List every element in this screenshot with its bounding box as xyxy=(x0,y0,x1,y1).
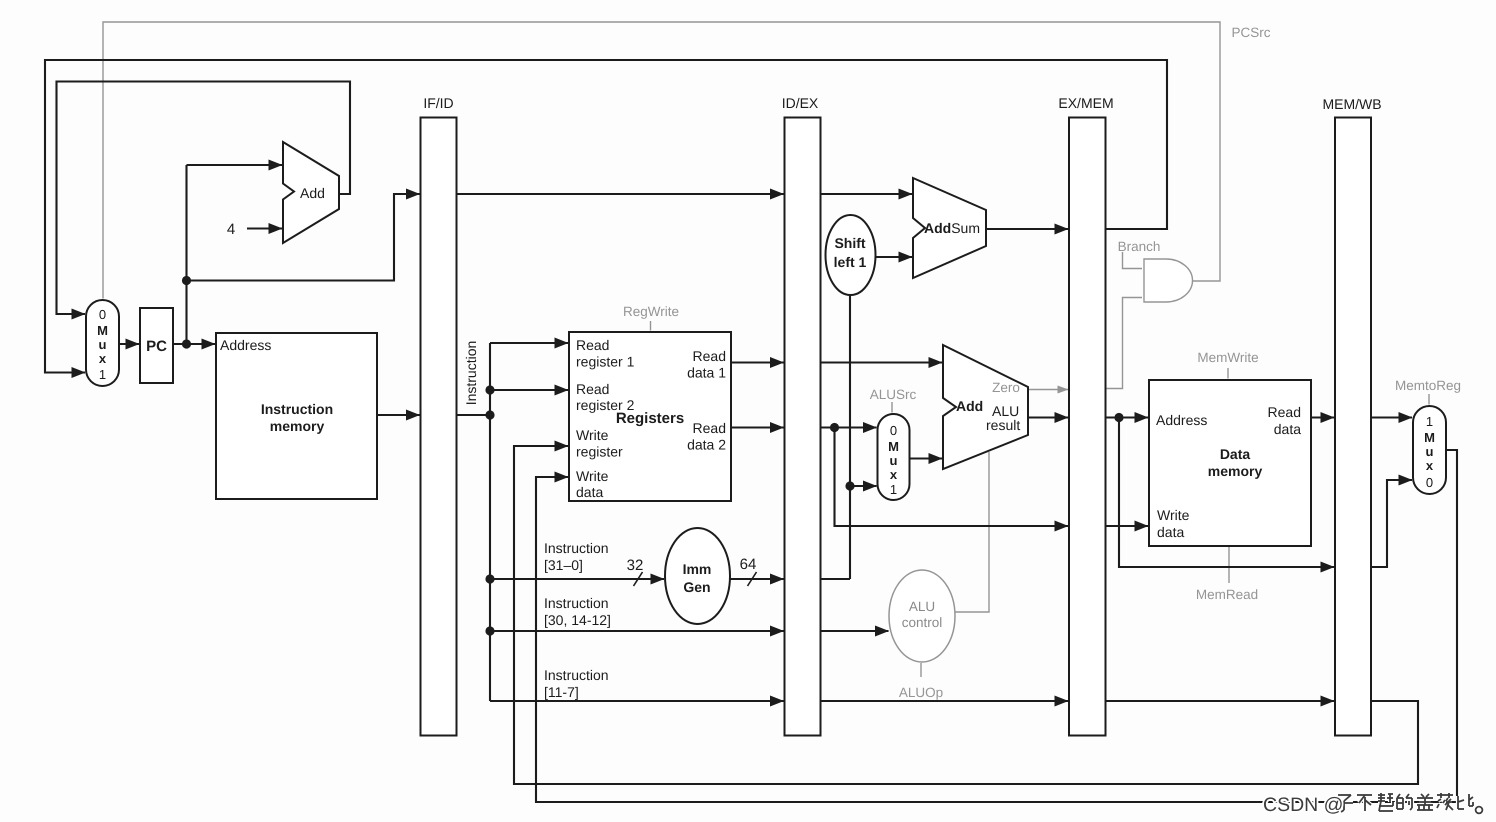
svg-text:Read: Read xyxy=(693,420,726,436)
svg-text:Imm: Imm xyxy=(683,561,712,577)
svg-text:MemWrite: MemWrite xyxy=(1197,350,1258,365)
svg-text:PC: PC xyxy=(146,338,167,355)
svg-text:u: u xyxy=(99,337,107,352)
svg-text:x: x xyxy=(99,351,107,366)
svg-text:Read: Read xyxy=(693,348,726,364)
svg-text:left 1: left 1 xyxy=(834,254,867,270)
svg-text:ALUSrc: ALUSrc xyxy=(870,387,917,402)
svg-text:MEM/WB: MEM/WB xyxy=(1322,96,1381,112)
svg-text:Read: Read xyxy=(576,337,609,353)
svg-text:u: u xyxy=(890,453,898,468)
svg-text:Add: Add xyxy=(956,398,983,414)
svg-text:data: data xyxy=(1157,524,1184,540)
svg-text:Read: Read xyxy=(1268,404,1301,420)
svg-text:M: M xyxy=(1424,430,1435,445)
svg-text:Data: Data xyxy=(1220,446,1251,462)
svg-text:result: result xyxy=(986,417,1020,433)
svg-text:Write: Write xyxy=(576,468,609,484)
svg-text:memory: memory xyxy=(1208,463,1263,479)
svg-text:ALU: ALU xyxy=(909,599,935,614)
svg-text:Branch: Branch xyxy=(1118,239,1161,254)
svg-text:32: 32 xyxy=(627,557,644,574)
svg-text:Address: Address xyxy=(220,337,271,353)
svg-text:Write: Write xyxy=(1157,507,1190,523)
svg-text:[11-7]: [11-7] xyxy=(544,684,579,700)
svg-text:data 1: data 1 xyxy=(687,365,726,381)
svg-text:Address: Address xyxy=(1156,412,1207,428)
svg-text:M: M xyxy=(888,439,899,454)
svg-text:data: data xyxy=(1274,421,1301,437)
svg-text:Instruction: Instruction xyxy=(463,341,479,406)
svg-text:Add: Add xyxy=(300,185,325,201)
svg-text:0: 0 xyxy=(1426,475,1433,490)
svg-text:Write: Write xyxy=(576,427,609,443)
svg-text:EX/MEM: EX/MEM xyxy=(1058,95,1113,111)
svg-text:4: 4 xyxy=(227,221,235,238)
svg-text:0: 0 xyxy=(99,307,106,322)
svg-text:Registers: Registers xyxy=(616,410,684,427)
svg-text:1: 1 xyxy=(890,482,897,497)
svg-text:data 2: data 2 xyxy=(687,437,726,453)
svg-text:M: M xyxy=(97,323,108,338)
svg-text:x: x xyxy=(1426,458,1434,473)
svg-text:register: register xyxy=(576,444,623,460)
svg-text:Instruction: Instruction xyxy=(261,401,333,417)
svg-text:data: data xyxy=(576,484,603,500)
svg-text:[30, 14-12]: [30, 14-12] xyxy=(544,612,611,628)
svg-text:RegWrite: RegWrite xyxy=(623,304,679,319)
svg-text:64: 64 xyxy=(740,556,757,573)
svg-text:control: control xyxy=(902,615,943,630)
svg-text:PCSrc: PCSrc xyxy=(1231,25,1270,40)
svg-text:0: 0 xyxy=(890,423,897,438)
svg-text:Instruction: Instruction xyxy=(544,540,609,556)
svg-text:AddSum: AddSum xyxy=(924,220,980,236)
svg-text:MemRead: MemRead xyxy=(1196,587,1258,602)
svg-text:memory: memory xyxy=(270,418,325,434)
svg-text:register 1: register 1 xyxy=(576,354,635,370)
svg-text:IF/ID: IF/ID xyxy=(423,95,453,111)
svg-text:Shift: Shift xyxy=(834,235,865,251)
svg-text:Zero: Zero xyxy=(992,380,1020,395)
svg-text:Read: Read xyxy=(576,381,609,397)
svg-text:CSDN @: CSDN @ xyxy=(1263,794,1343,816)
svg-text:ID/EX: ID/EX xyxy=(782,95,819,111)
svg-text:Instruction: Instruction xyxy=(544,667,609,683)
svg-text:u: u xyxy=(1426,444,1434,459)
svg-text:Instruction: Instruction xyxy=(544,595,609,611)
svg-text:[31–0]: [31–0] xyxy=(544,557,583,573)
svg-text:MemtoReg: MemtoReg xyxy=(1395,378,1461,393)
svg-text:ALUOp: ALUOp xyxy=(899,685,943,700)
svg-text:1: 1 xyxy=(99,367,106,382)
svg-text:x: x xyxy=(890,467,898,482)
svg-text:1: 1 xyxy=(1426,414,1433,429)
svg-text:Gen: Gen xyxy=(683,579,710,595)
